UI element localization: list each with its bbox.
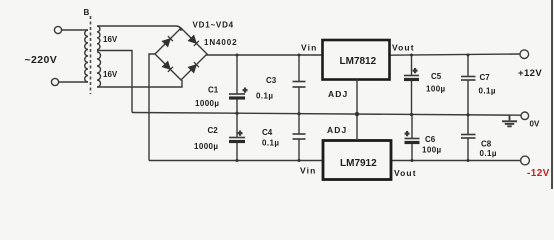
terminal: 0V output xyxy=(521,112,529,120)
svg-text:1N4002: 1N4002 xyxy=(204,38,237,47)
svg-text:ADJ: ADJ xyxy=(327,125,347,135)
wire: 0V middle rail xyxy=(132,113,521,116)
capacitor C6 branch wires xyxy=(411,114,413,161)
svg-text:16V: 16V xyxy=(103,70,118,79)
wire: primary top lead xyxy=(61,29,88,31)
svg-text:C4: C4 xyxy=(262,128,273,137)
junction node: C4 bottom xyxy=(298,159,301,162)
page rule: right column border xyxy=(551,0,553,189)
capacitor C8 branch wires xyxy=(467,114,469,160)
svg-text:0.1µ: 0.1µ xyxy=(256,92,273,101)
junction node: C6 bottom xyxy=(411,159,414,162)
svg-text:B: B xyxy=(84,8,90,17)
transformer B primary winding xyxy=(85,30,88,82)
junction node: C3 top xyxy=(298,54,301,57)
svg-text:+: + xyxy=(243,88,247,95)
capacitor C4 plates xyxy=(293,134,306,139)
wire: -12V bottom rail left segment xyxy=(149,160,323,162)
svg-text:C1: C1 xyxy=(208,86,219,95)
wire: top positive rail left segment xyxy=(206,54,323,56)
svg-text:Vout: Vout xyxy=(392,43,415,53)
junction node: C1 top xyxy=(236,54,239,57)
svg-text:Vin: Vin xyxy=(300,166,316,176)
svg-text:C3: C3 xyxy=(266,76,277,85)
svg-text:LM7812: LM7812 xyxy=(340,56,377,67)
svg-text:0.1µ: 0.1µ xyxy=(479,87,496,96)
svg-text:Vin: Vin xyxy=(301,43,317,53)
ground symbol near 0V xyxy=(502,115,517,127)
svg-text:ADJ: ADJ xyxy=(328,89,348,99)
svg-text:1000µ: 1000µ xyxy=(194,142,218,151)
junction node: C7 top xyxy=(467,54,470,57)
svg-text:100µ: 100µ xyxy=(422,146,442,155)
terminal: AC input bottom xyxy=(51,78,58,85)
svg-text:1000µ: 1000µ xyxy=(195,99,219,108)
terminal: AC input top xyxy=(54,26,61,33)
junction node: C3/C4 mid xyxy=(297,112,300,115)
svg-text:100µ: 100µ xyxy=(426,85,446,94)
svg-text:C7: C7 xyxy=(480,73,491,82)
wire: secondary bottom to bridge bottom vertex xyxy=(97,80,182,87)
svg-text:Vout: Vout xyxy=(394,168,417,178)
diode VD3 lower-left xyxy=(163,62,173,72)
svg-text:~220V: ~220V xyxy=(25,54,58,66)
svg-text:+: + xyxy=(405,131,409,138)
wire: -12V bottom rail right segment xyxy=(391,160,521,162)
wire: primary bottom lead xyxy=(58,81,88,83)
svg-text:0.1µ: 0.1µ xyxy=(262,139,279,148)
diode VD2 upper-right xyxy=(189,36,199,46)
capacitor C3 plates xyxy=(293,82,306,88)
svg-text:LM7912: LM7912 xyxy=(340,158,377,169)
capacitor C1 plates (electrolytic) xyxy=(229,94,245,98)
junction node: C8 bottom xyxy=(467,159,470,162)
svg-text:+12V: +12V xyxy=(518,68,542,79)
svg-text:C5: C5 xyxy=(431,72,442,81)
svg-text:0V: 0V xyxy=(530,120,540,129)
svg-text:VD1~VD4: VD1~VD4 xyxy=(193,21,234,30)
junction node: C5/C6 mid xyxy=(410,113,413,116)
capacitor C7 plates xyxy=(461,77,476,81)
svg-text:+: + xyxy=(238,131,242,138)
capacitor C7 branch wires xyxy=(467,55,469,115)
terminal: -12V output xyxy=(521,156,530,165)
capacitor C3 branch wires xyxy=(298,55,300,114)
wire: secondary center tap down to 0V rail xyxy=(97,51,132,113)
wire: secondary top to bridge top vertex xyxy=(97,26,181,31)
svg-text:16V: 16V xyxy=(103,35,118,44)
junction node: C7/C8 mid xyxy=(466,113,469,116)
svg-text:C2: C2 xyxy=(208,126,219,135)
svg-text:0.1µ: 0.1µ xyxy=(480,149,497,158)
capacitor C5 branch wires xyxy=(411,55,413,115)
capacitor C2 plates (electrolytic) xyxy=(229,138,245,142)
wire: ADJ common vertical (7812 ADJ to 7912 ADJ) xyxy=(356,80,358,141)
regulator U2 LM7912 box xyxy=(323,141,391,180)
transformer B secondary winding 2 (16V) xyxy=(97,52,101,87)
capacitor C8 plates xyxy=(461,135,476,139)
junction node: C5 top xyxy=(410,54,413,57)
capacitor C5 plates (electrolytic) xyxy=(404,76,419,80)
svg-text:C6: C6 xyxy=(425,135,436,144)
junction node: C1/C2 mid xyxy=(235,112,238,115)
wire: top positive rail right segment (Vout to +12V) xyxy=(390,54,521,55)
diode VD4 lower-right xyxy=(189,62,199,72)
junction node: C2 bottom xyxy=(236,159,239,162)
transformer B core (dashed) xyxy=(90,16,92,94)
capacitor C6 plates (electrolytic) xyxy=(405,139,420,143)
transformer B secondary winding 1 (16V) xyxy=(97,26,100,50)
svg-text:-12V: -12V xyxy=(527,168,550,179)
junction node: ADJ mid xyxy=(355,112,359,116)
capacitor C2 branch wires xyxy=(236,113,238,161)
bridge rectifier VD1-VD4 diamond xyxy=(155,28,207,80)
terminal: +12V output xyxy=(520,50,529,59)
capacitor C1 branch wires xyxy=(236,55,238,114)
capacitor C4 branch wires xyxy=(298,113,300,160)
svg-text:+: + xyxy=(413,68,417,75)
wire: bridge negative output down to -12V rail xyxy=(149,54,155,161)
diode VD1 upper-left xyxy=(163,36,173,46)
svg-text:C8: C8 xyxy=(481,140,492,149)
regulator U1 LM7812 box xyxy=(323,40,390,80)
